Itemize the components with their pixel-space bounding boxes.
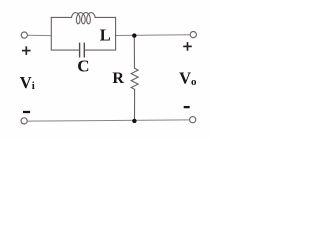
svg-text:R: R (112, 70, 124, 87)
svg-text:Vi: Vi (20, 73, 35, 92)
svg-text:C: C (77, 57, 89, 76)
svg-text:L: L (100, 26, 111, 45)
svg-text:Vo: Vo (179, 69, 197, 88)
